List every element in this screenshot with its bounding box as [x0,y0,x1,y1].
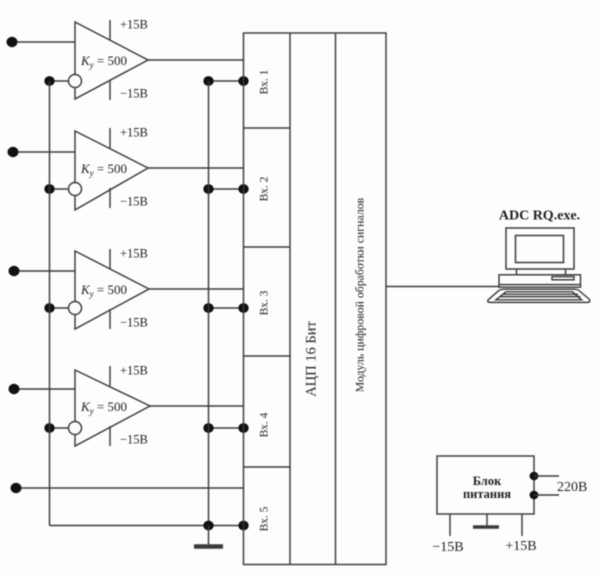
wire In4 to op-amp U4 noninverting input [19,388,75,390]
computer monitor [506,228,574,269]
wire In5 direct to ADC Vx5 [21,487,244,489]
computer floppy slot [552,277,574,280]
svg-text:−15В: −15В [120,195,148,209]
ADC cell divider 2-3 [244,246,291,248]
wire In3 to op-amp U3 noninverting input [19,270,75,272]
U4 inverting input bubble [69,422,82,435]
U1 inverting input bubble [69,75,82,88]
svg-text:+15В: +15В [120,126,148,140]
svg-text:+15В: +15В [120,364,148,378]
ADC cell divider 4-5 [244,466,291,468]
svg-text:Вх. 3: Вх. 3 [259,290,271,315]
svg-text:Вх. 4: Вх. 4 [259,412,271,437]
junction dot ADC edge row2 [238,184,248,194]
wire DSP module to computer [386,286,499,288]
wire U2 bubble to ground bus [50,188,69,190]
ADC cell divider 1-2 [244,127,291,129]
node 220V terminal upper [530,472,539,481]
wire ground bus to ADC row3 [209,307,244,309]
svg-text:Kу = 500: Kу = 500 [80,282,127,299]
junction dot ADC edge row1 [238,76,248,86]
wire U3 bubble to ground bus [50,307,69,309]
junction dot bus row1 [44,76,54,86]
junction dot bus row4 [44,423,54,433]
junction dot ground bus row4 [203,423,213,433]
power supply -15V stub [449,514,451,536]
node In2 terminal [8,147,19,157]
wire 220V lower [534,494,559,496]
op-amp U1 [69,18,149,101]
svg-text:+15В: +15В [505,539,536,554]
svg-text:+15В: +15В [120,18,148,32]
junction dot ground bus row1 [203,76,213,86]
junction dot bus row2 [44,184,54,194]
wire In2 to op-amp U2 noninverting input [18,151,75,153]
ADC block АЦП 16 Бит outer box [244,33,387,565]
U2 inverting input bubble [69,183,82,196]
ADC input column divider [289,33,291,565]
svg-text:Kу = 500: Kу = 500 [80,161,127,178]
power supply block [437,456,534,514]
wire U4 output to ADC Vx4 [150,405,244,407]
svg-text:Вх. 2: Вх. 2 [259,176,271,201]
computer keyboard key rows [496,292,582,300]
svg-text:Kу = 500: Kу = 500 [80,53,127,70]
U2 +15V pin [109,128,111,148]
svg-text:−15В: −15В [432,540,463,555]
power supply ground stub [486,514,488,526]
power supply +15V stub [521,514,523,536]
wire ground bus to ADC row1 [209,80,244,82]
wire U1 output to ADC Vx1 [148,59,244,61]
junction dot ground bus bottom [203,521,213,531]
junction dot ADC edge bottom [238,521,248,531]
computer keyboard [488,289,590,302]
svg-text:Вх. 1: Вх. 1 [259,69,271,94]
computer system unit [499,275,581,287]
op-amp U4 [69,364,151,447]
U4 +15V pin [109,366,111,386]
junction dot ADC edge row3 [238,303,248,313]
wire 220V upper [534,475,559,477]
junction dot ground bus row2 [203,184,213,194]
computer monitor screen [516,236,564,263]
ADC cell divider 3-4 [244,355,291,357]
node 220V terminal lower [530,491,539,500]
power supply ground bar [473,525,499,529]
svg-text:−15В: −15В [120,433,148,447]
node In1 terminal [7,37,18,47]
svg-text:Вх. 5: Вх. 5 [259,506,271,531]
U2 -15V pin [109,188,111,208]
op-amp U2 [69,126,149,211]
computer system unit base line [499,284,581,286]
wire bottom common to ADC [50,525,244,527]
wire ground bus to ADC row2 [209,188,244,190]
wire U3 output to ADC Vx3 [149,288,244,290]
wire U2 output to ADC Vx2 [148,167,244,169]
computer monitor stand [517,269,566,275]
ground symbol main [194,526,223,547]
wire In1 to op-amp U1 noninverting input [17,41,75,43]
svg-text:Kу = 500: Kу = 500 [80,399,127,416]
svg-text:+15В: +15В [120,247,148,261]
wire ground bus vertical [208,81,210,526]
junction dot bus row3 [44,303,54,313]
U1 +15V pin [109,20,111,40]
svg-text:АЦП 16 Бит: АЦП 16 Бит [303,321,319,397]
wire ground bus to ADC row4 [209,427,244,429]
svg-text:220В: 220В [557,480,587,495]
junction dot ground bus row3 [203,303,213,313]
svg-text:Блок: Блок [473,474,502,488]
wire U4 bubble to ground bus [50,427,69,429]
U3 inverting input bubble [69,302,82,315]
junction dot ADC edge row4 [238,423,248,433]
node In3 terminal [9,266,20,276]
node In4 terminal [9,384,20,394]
svg-text:Модуль цифровой обработки сигн: Модуль цифровой обработки сигналов [353,197,367,392]
wire inverting bus vertical [49,81,51,526]
U4 -15V pin [109,426,111,446]
svg-text:−15В: −15В [120,87,148,101]
svg-text:питания: питания [463,487,511,501]
ADC / DSP module divider [335,33,337,565]
wire U1 bubble to ground bus [50,80,69,82]
svg-text:ADC RQ.exe.: ADC RQ.exe. [499,209,580,224]
U3 -15V pin [109,309,111,329]
node In5 terminal [11,483,22,493]
op-amp U3 [69,247,150,330]
U3 +15V pin [109,249,111,269]
U1 -15V pin [109,80,111,100]
svg-text:−15В: −15В [120,316,148,330]
